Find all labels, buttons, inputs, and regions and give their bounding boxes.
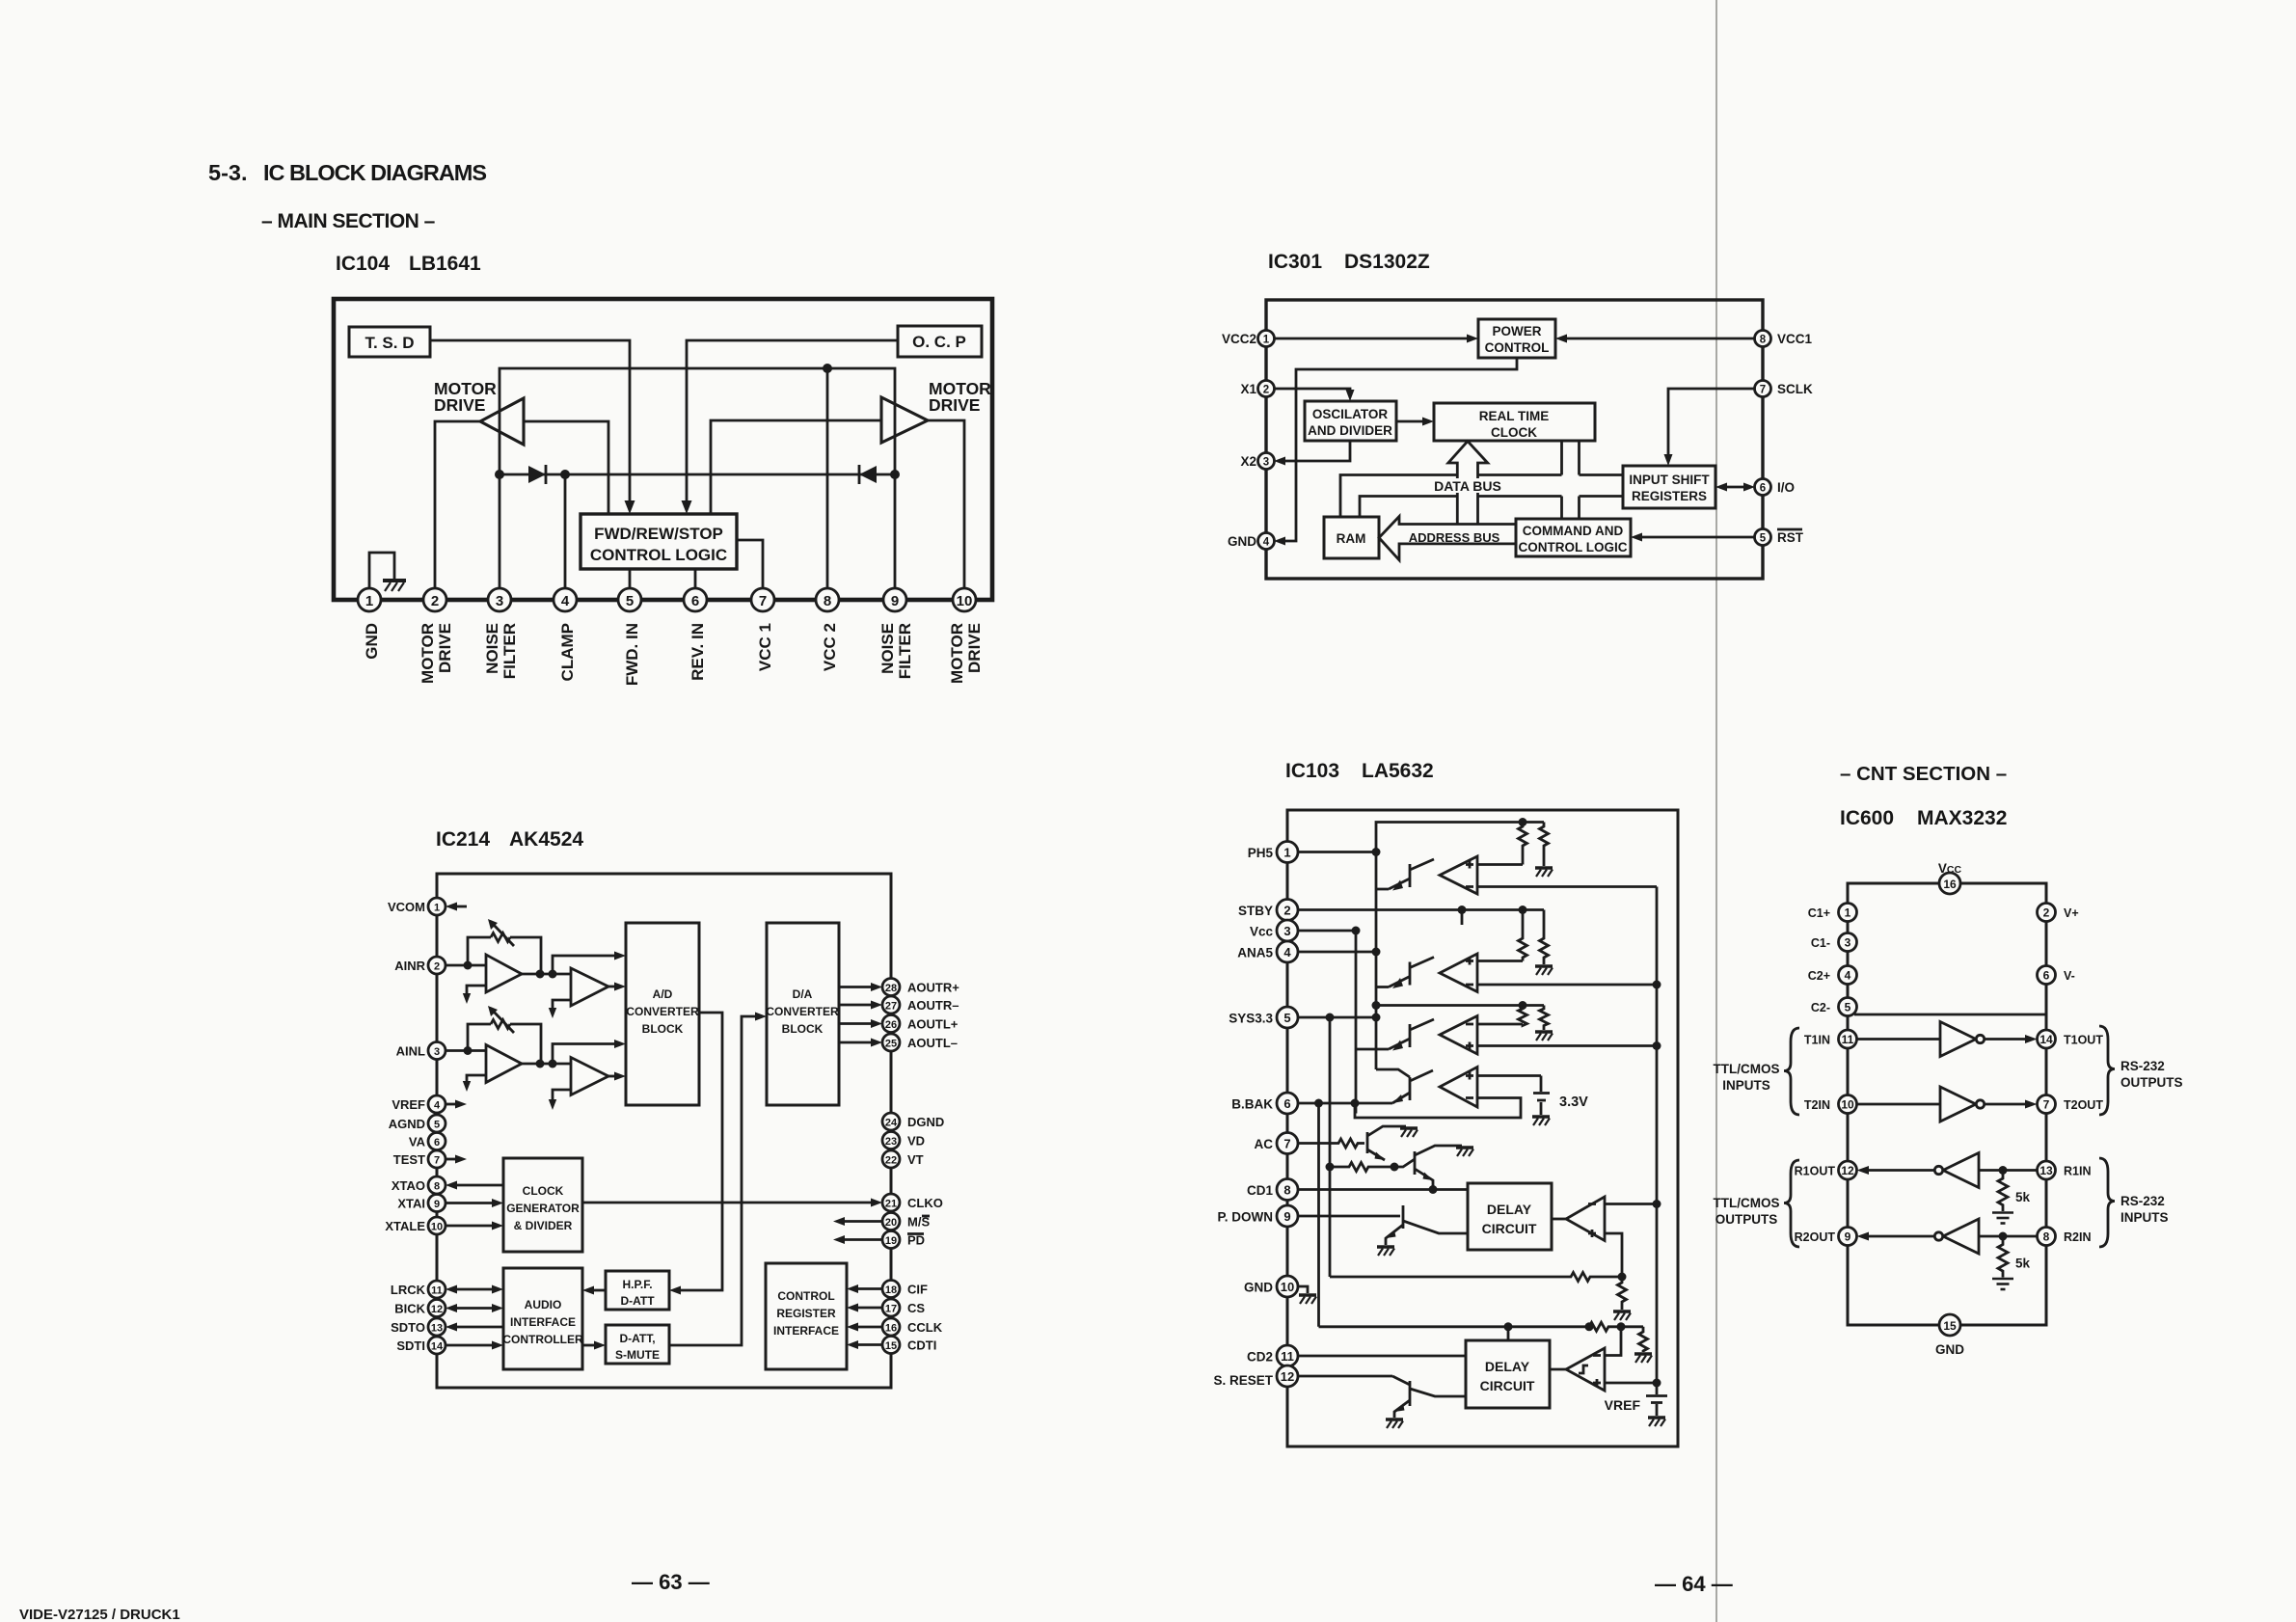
wire U1c plus input long — [1477, 1044, 1657, 1047]
block DELAY CIRCUIT 2 — [1466, 1340, 1550, 1408]
ground Q8 — [1386, 1419, 1403, 1428]
svg-text:6: 6 — [691, 593, 699, 609]
svg-text:26: 26 — [885, 1019, 897, 1031]
wire pin2 AINR — [446, 964, 486, 967]
buffer R2 wire in — [1979, 1235, 2038, 1238]
wire pin12 BICK bidirectional — [453, 1307, 496, 1310]
wire U1b minus input long — [1477, 984, 1657, 987]
junction dot pin9/diode — [890, 470, 900, 479]
svg-text:5-3.: 5-3. — [208, 160, 248, 185]
wire A1 input from control logic — [524, 421, 608, 514]
svg-text:T2OUT: T2OUT — [2064, 1098, 2103, 1112]
data bus left bend into RAM — [1340, 475, 1457, 518]
svg-text:LRCK: LRCK — [391, 1283, 426, 1297]
svg-text:VA: VA — [409, 1135, 426, 1149]
svg-text:OUTPUTS: OUTPUTS — [2120, 1075, 2183, 1090]
svg-text:13: 13 — [431, 1323, 443, 1335]
pin 9 XTAI — [428, 1195, 446, 1212]
pin 13 R1IN — [2038, 1161, 2056, 1179]
amp A1L input buffer — [486, 1045, 522, 1083]
svg-text:TEST: TEST — [393, 1152, 425, 1167]
svg-text:IC BLOCK DIAGRAMS: IC BLOCK DIAGRAMS — [263, 160, 486, 185]
svg-text:DELAY: DELAY — [1485, 1359, 1530, 1374]
svg-text:AOUTL–: AOUTL– — [907, 1036, 958, 1050]
svg-text:1: 1 — [1263, 335, 1270, 346]
comparator U1c — [1440, 1016, 1477, 1055]
svg-text:– CNT SECTION –: – CNT SECTION – — [1840, 763, 2007, 785]
svg-text:CONTROL LOGIC: CONTROL LOGIC — [590, 546, 727, 564]
pin 1 VCC2 — [1258, 331, 1275, 347]
wire audio controller to D-ATT — [582, 1344, 598, 1347]
wire A2L lower input — [553, 1090, 571, 1102]
svg-text:T. S. D: T. S. D — [365, 334, 414, 352]
svg-text:AND DIVIDER: AND DIVIDER — [1308, 423, 1392, 438]
svg-text:4: 4 — [434, 1100, 441, 1112]
svg-text:4: 4 — [1263, 537, 1270, 549]
svg-text:XTAO: XTAO — [392, 1178, 425, 1193]
ground stage1 — [1535, 868, 1553, 877]
ground Q6 collector — [1456, 1148, 1473, 1156]
svg-text:10: 10 — [431, 1222, 443, 1233]
wire pin8 CD1 — [1298, 1188, 1468, 1191]
wire pin7 AC with resistor — [1298, 1139, 1364, 1148]
block CONTROL REGISTER INTERFACE — [766, 1263, 847, 1369]
pin 7 TEST — [428, 1150, 446, 1168]
svg-text:C2+: C2+ — [1808, 969, 1830, 983]
buffer T1 wire out — [1985, 1038, 2029, 1041]
svg-text:11: 11 — [1842, 1033, 1854, 1046]
svg-text:3: 3 — [1845, 936, 1851, 950]
svg-text:TTL/CMOS: TTL/CMOS — [1714, 1062, 1780, 1076]
pin 2 V+ — [2038, 904, 2056, 922]
wire U2 minus input — [1605, 1203, 1657, 1205]
pin 4 C2+ — [1839, 966, 1857, 985]
svg-text:VREF: VREF — [392, 1097, 425, 1112]
svg-text:SCLK: SCLK — [1777, 382, 1813, 396]
wire STBY stub — [1461, 910, 1464, 926]
right bus vertical — [1656, 887, 1659, 1384]
svg-text:INPUTS: INPUTS — [2120, 1210, 2169, 1225]
pin 7 SCLK — [1755, 381, 1771, 397]
pin 16 Vcc — [1939, 873, 1960, 894]
svg-text:DRIVE: DRIVE — [434, 395, 485, 415]
pin 16 CCLK — [882, 1318, 900, 1336]
svg-text:A/D: A/D — [653, 987, 673, 1001]
pin 23 VD — [882, 1132, 900, 1149]
svg-text:FWD/REW/STOP: FWD/REW/STOP — [594, 525, 723, 543]
pin 2 — [423, 588, 446, 611]
wire delay2 to comparator U3 — [1550, 1368, 1566, 1371]
transistor Q3 — [1356, 1019, 1434, 1049]
resistor stage2 b — [1540, 910, 1549, 965]
wire A1R lower input — [467, 986, 486, 996]
IC600 outer boundary — [1848, 883, 2046, 1325]
svg-text:27: 27 — [885, 1001, 897, 1013]
svg-text:X1: X1 — [1240, 382, 1256, 396]
variable resistor feedback R channel — [468, 937, 541, 974]
diode D2 — [859, 466, 877, 483]
svg-text:10: 10 — [1281, 1280, 1294, 1294]
svg-text:ADDRESS BUS: ADDRESS BUS — [1409, 530, 1500, 545]
svg-text:1: 1 — [365, 593, 373, 609]
svg-text:STBY: STBY — [1238, 904, 1273, 918]
ground VREF — [1648, 1418, 1665, 1426]
ground R1 — [1992, 1213, 2013, 1224]
pin 11 CD2 — [1277, 1345, 1298, 1366]
amp A1R input buffer — [486, 955, 522, 992]
ground Q7 — [1377, 1247, 1394, 1256]
block CLOCK GENERATOR & DIVIDER — [503, 1158, 582, 1252]
wire A2R output to A/D — [608, 986, 617, 988]
pin 9 — [883, 588, 906, 611]
pin 21 CLKO — [882, 1194, 900, 1211]
svg-text:12: 12 — [1841, 1164, 1854, 1177]
svg-text:8: 8 — [434, 1181, 440, 1193]
pin 4 VREF — [428, 1095, 446, 1113]
svg-text:R1OUT: R1OUT — [1795, 1165, 1836, 1178]
inner vertical V4 — [1317, 1103, 1320, 1327]
ground stage3 — [1535, 1032, 1553, 1041]
wire pin11 LRCK bidirectional — [453, 1288, 496, 1291]
wire oscilator to pin3 X2 — [1283, 441, 1350, 461]
svg-text:16: 16 — [1943, 878, 1957, 891]
svg-text:4: 4 — [1845, 969, 1851, 983]
svg-text:S-MUTE: S-MUTE — [615, 1348, 660, 1362]
data bus right segment to input shift registers — [1580, 475, 1624, 497]
svg-text:28: 28 — [885, 983, 897, 994]
transistor Q4 — [1392, 1070, 1433, 1103]
wire pin2 to left motor drive output — [435, 421, 480, 589]
IC103 outer block boundary — [1287, 810, 1678, 1446]
svg-text:5: 5 — [1760, 533, 1767, 545]
svg-text:CLOCK: CLOCK — [523, 1184, 564, 1198]
pin 18 CIF — [882, 1281, 900, 1298]
pin 2 STBY — [1277, 900, 1298, 921]
wire O.C.P to control logic — [687, 340, 898, 501]
svg-text:NOISE: NOISE — [878, 623, 897, 674]
svg-text:14: 14 — [431, 1341, 444, 1353]
pin 8 XTAO — [428, 1176, 446, 1194]
svg-text:5k: 5k — [2015, 1257, 2031, 1271]
svg-text:3: 3 — [434, 1046, 440, 1058]
svg-text:10: 10 — [957, 593, 973, 609]
svg-text:5k: 5k — [2015, 1190, 2031, 1204]
pin 9 P.DOWN — [1277, 1205, 1298, 1227]
junction dot VCC2 node — [823, 364, 832, 373]
svg-text:12: 12 — [1281, 1369, 1294, 1384]
wire pin9 XTAI to clock gen — [446, 1202, 495, 1204]
svg-text:& DIVIDER: & DIVIDER — [514, 1219, 573, 1232]
IC301 outer block boundary — [1266, 300, 1763, 579]
pin 1 PH5 — [1277, 842, 1298, 863]
svg-text:GENERATOR: GENERATOR — [506, 1202, 580, 1215]
wire pin9 P.DOWN — [1298, 1215, 1400, 1218]
pin 7 AC — [1277, 1133, 1298, 1154]
buffer T2 wire in — [1857, 1103, 1941, 1106]
svg-text:D-ATT: D-ATT — [620, 1294, 655, 1308]
wire pin2 X1 to oscilator — [1274, 389, 1350, 392]
svg-text:AINL: AINL — [396, 1044, 425, 1059]
op-amp U1 outer block boundary — [334, 299, 992, 600]
svg-text:T2IN: T2IN — [1804, 1098, 1830, 1112]
svg-text:IC214: IC214 — [436, 828, 490, 851]
wire L channel to A/D upper — [553, 1044, 617, 1065]
svg-text:3.3V: 3.3V — [1559, 1095, 1588, 1110]
svg-text:S. RESET: S. RESET — [1213, 1373, 1273, 1388]
svg-text:CONTROL LOGIC: CONTROL LOGIC — [1519, 540, 1628, 554]
svg-text:1: 1 — [434, 903, 440, 914]
svg-text:GND: GND — [1935, 1342, 1964, 1357]
wire pin15 CDTI to control register — [854, 1343, 882, 1346]
wire pin10 GND — [1298, 1286, 1308, 1293]
pin 4 — [554, 588, 577, 611]
wire pin1 PH5 — [1298, 851, 1376, 853]
svg-text:AOUTL+: AOUTL+ — [907, 1017, 959, 1032]
pin 15 CDTI — [882, 1337, 900, 1354]
svg-text:CONVERTER: CONVERTER — [626, 1005, 699, 1018]
svg-text:AC: AC — [1255, 1137, 1274, 1151]
svg-text:T1IN: T1IN — [1804, 1034, 1830, 1047]
svg-text:10: 10 — [1841, 1098, 1854, 1112]
pin 3 C1- — [1839, 933, 1857, 952]
svg-text:– MAIN SECTION –: – MAIN SECTION – — [261, 210, 436, 232]
svg-text:XTAI: XTAI — [397, 1197, 425, 1211]
wire clamp diode row — [500, 473, 895, 476]
capacitor VREF — [1656, 1383, 1659, 1394]
svg-text:VCC2: VCC2 — [1222, 332, 1256, 346]
svg-text:AUDIO: AUDIO — [525, 1298, 562, 1311]
wire pin1 to ground — [369, 553, 394, 589]
transistor Q1 — [1376, 859, 1434, 889]
svg-text:CONVERTER: CONVERTER — [766, 1005, 839, 1018]
wire pin11 CD2 — [1298, 1355, 1466, 1358]
svg-text:3: 3 — [496, 593, 503, 609]
buffer R1 wire out — [1865, 1169, 1934, 1172]
svg-text:DRIVE: DRIVE — [965, 623, 984, 673]
svg-text:VCC1: VCC1 — [1777, 332, 1813, 346]
wire delay1 to comparator U2 — [1552, 1218, 1566, 1221]
battery 3.3V — [1540, 1076, 1543, 1093]
comparator U1d — [1440, 1068, 1477, 1108]
svg-text:INPUT SHIFT: INPUT SHIFT — [1629, 473, 1710, 487]
wire pin14 SDTI input — [446, 1344, 496, 1347]
wire control logic to pin7 VCC1 — [737, 540, 763, 589]
svg-text:LA5632: LA5632 — [1362, 760, 1434, 782]
svg-text:5: 5 — [434, 1120, 440, 1131]
pin 7 T2OUT — [2038, 1095, 2056, 1114]
block RAM — [1324, 517, 1379, 558]
svg-text:15: 15 — [885, 1340, 897, 1352]
wire pin6 B.BAK — [1298, 1102, 1392, 1105]
wire A2 input from control logic — [711, 420, 881, 514]
wire pin4 ANA5 — [1298, 951, 1376, 954]
buffer R2 — [1943, 1219, 1979, 1254]
resistor 5k R1 — [1998, 1171, 2008, 1212]
svg-text:FWD. IN: FWD. IN — [623, 623, 641, 686]
brace RS-232 inputs — [2099, 1158, 2115, 1247]
pin 27 AOUTR- — [882, 996, 900, 1014]
svg-text:MOTOR: MOTOR — [419, 623, 437, 684]
pin 13 SDTO — [428, 1318, 446, 1336]
pin 6 V- — [2038, 966, 2056, 985]
svg-text:2: 2 — [2043, 906, 2050, 920]
svg-text:LB1641: LB1641 — [409, 253, 481, 275]
wire pin4 clamp — [564, 474, 567, 589]
pin 8 R2IN — [2038, 1228, 2056, 1246]
svg-text:VT: VT — [907, 1152, 924, 1167]
page crease line — [1715, 0, 1717, 1622]
svg-text:IC600: IC600 — [1840, 807, 1894, 829]
svg-text:SYS3.3: SYS3.3 — [1229, 1012, 1273, 1026]
svg-text:IC103: IC103 — [1285, 760, 1339, 782]
svg-text:GND: GND — [1244, 1281, 1273, 1295]
svg-text:DELAY: DELAY — [1487, 1202, 1532, 1217]
svg-text:1: 1 — [1283, 846, 1290, 860]
svg-text:12: 12 — [431, 1304, 443, 1315]
wire pin4 VREF arrow — [446, 1103, 457, 1106]
svg-text:V+: V+ — [2064, 906, 2079, 920]
brace TTL/CMOS outputs — [1784, 1160, 1799, 1247]
pin 6 B.BAK — [1277, 1093, 1298, 1114]
svg-text:REGISTERS: REGISTERS — [1632, 489, 1707, 503]
block FWD/REW/STOP CONTROL LOGIC — [581, 514, 737, 569]
wire pin20 M/S input arrow — [841, 1220, 882, 1223]
wire A1R output node — [522, 973, 571, 976]
inner vertical V1 — [1355, 931, 1358, 1114]
wire pin5 RST to command and control logic — [1639, 536, 1755, 539]
transistor Q5 — [1367, 1126, 1406, 1160]
svg-text:AK4524: AK4524 — [509, 828, 583, 851]
buffer T2 wire out — [1985, 1103, 2029, 1106]
svg-text:19: 19 — [885, 1235, 897, 1247]
wire pin16 CCLK to control register — [854, 1326, 882, 1329]
wire H.P.F. to audio controller — [590, 1289, 606, 1292]
resistor stage1 a — [1519, 823, 1527, 865]
wire pin6 I/O to input shift registers — [1724, 486, 1747, 489]
transistor Q6 — [1415, 1146, 1462, 1190]
svg-text:ANA5: ANA5 — [1237, 946, 1273, 960]
wire dot to U3 minus — [1605, 1327, 1621, 1356]
wire clock gen to pin21 CLKO — [582, 1202, 874, 1204]
wire pin19 PD input arrow — [841, 1238, 882, 1241]
pin 2 X1 — [1258, 381, 1275, 397]
svg-text:REAL TIME: REAL TIME — [1479, 409, 1550, 423]
inner vertical V3 — [1329, 1017, 1332, 1277]
svg-text:9: 9 — [434, 1199, 440, 1210]
svg-text:DRIVE: DRIVE — [929, 395, 980, 415]
svg-text:9: 9 — [1283, 1209, 1290, 1224]
svg-text:C1-: C1- — [1811, 936, 1830, 950]
svg-text:V-: V- — [2064, 969, 2075, 983]
buffer T1 wire in — [1857, 1038, 1941, 1041]
svg-text:MOTOR: MOTOR — [948, 623, 966, 684]
svg-text:SDTI: SDTI — [396, 1338, 425, 1353]
svg-text:CLOCK: CLOCK — [1491, 425, 1537, 440]
svg-text:FILTER: FILTER — [500, 623, 519, 679]
ground row resistor — [1634, 1354, 1652, 1363]
wire into delay2 top — [1507, 1327, 1510, 1340]
pin 3 AINL — [428, 1042, 446, 1060]
svg-text:CLKO: CLKO — [907, 1196, 943, 1210]
comparator U3 schmitt — [1566, 1348, 1605, 1391]
pin 7 — [751, 588, 774, 611]
buffer R1 — [1943, 1153, 1979, 1188]
pin 12 R1OUT — [1839, 1161, 1857, 1179]
resistor stage1 b — [1540, 823, 1549, 867]
svg-text:8: 8 — [2043, 1230, 2050, 1244]
svg-text:22: 22 — [885, 1155, 897, 1167]
pin 5 C2- — [1839, 998, 1857, 1016]
svg-text:7: 7 — [434, 1155, 440, 1167]
svg-text:GND: GND — [363, 623, 381, 660]
svg-text:VIDE-V27125 / DRUCK1: VIDE-V27125 / DRUCK1 — [19, 1607, 180, 1622]
wire pin5 SYS3.3 — [1298, 1016, 1376, 1019]
data bus arrow into real time clock — [1448, 442, 1488, 525]
svg-text:6: 6 — [1283, 1096, 1290, 1111]
svg-text:MAX3232: MAX3232 — [1917, 807, 2007, 829]
pin 3 Vcc — [1277, 920, 1298, 941]
svg-text:VD: VD — [907, 1134, 925, 1149]
pin 28 AOUTR+ — [882, 979, 900, 996]
wire control logic to pin5 — [629, 569, 632, 589]
wire pin18 CIF to control register — [854, 1287, 882, 1290]
brace RS-232 outputs — [2099, 1026, 2115, 1115]
pin 6 — [684, 588, 707, 611]
svg-text:INPUTS: INPUTS — [1722, 1078, 1770, 1093]
svg-text:SDTO: SDTO — [391, 1320, 425, 1335]
wire pin1 VCOM arrow — [455, 906, 467, 908]
pin 5 AGND — [428, 1115, 446, 1132]
svg-text:COMMAND AND: COMMAND AND — [1523, 524, 1624, 538]
amp A2R — [571, 968, 608, 1006]
svg-text:17: 17 — [885, 1304, 897, 1315]
svg-text:VCC 2: VCC 2 — [821, 623, 839, 671]
buffer T2 — [1940, 1087, 1976, 1122]
svg-text:2: 2 — [434, 961, 440, 973]
svg-text:21: 21 — [885, 1199, 897, 1210]
wire A1L lower input — [467, 1075, 486, 1084]
comparator U2 — [1566, 1197, 1605, 1241]
svg-text:CD1: CD1 — [1247, 1183, 1273, 1198]
wire D/A to pin26 — [839, 1022, 874, 1025]
pin 10 — [953, 588, 976, 611]
svg-text:R2IN: R2IN — [2064, 1230, 2091, 1244]
pin 20 M/S — [882, 1213, 900, 1230]
block D-ATT S-MUTE — [606, 1325, 669, 1364]
comparator U1a — [1440, 856, 1477, 894]
wire pin8 VCC2 — [826, 368, 829, 589]
svg-text:9: 9 — [891, 593, 899, 609]
pin 1 — [358, 588, 381, 611]
block D/A CONVERTER BLOCK — [767, 923, 839, 1105]
svg-text:CONTROL: CONTROL — [777, 1289, 834, 1303]
svg-text:P. DOWN: P. DOWN — [1217, 1210, 1273, 1225]
svg-text:R1IN: R1IN — [2064, 1165, 2091, 1178]
svg-text:CIRCUIT: CIRCUIT — [1482, 1221, 1537, 1236]
IC214 outer block boundary — [437, 874, 891, 1388]
svg-text:2: 2 — [1263, 385, 1269, 396]
svg-text:CD2: CD2 — [1247, 1350, 1273, 1365]
resistor 5k R2 — [1998, 1236, 2008, 1278]
diode D1 — [528, 466, 546, 483]
wire pin17 CS to control register — [854, 1307, 882, 1310]
pin 3 — [488, 588, 511, 611]
svg-text:8: 8 — [1283, 1183, 1290, 1198]
svg-text:NOISE: NOISE — [483, 623, 501, 674]
svg-text:VREF: VREF — [1605, 1397, 1641, 1413]
svg-text:23: 23 — [885, 1136, 897, 1148]
amp A2L — [571, 1058, 608, 1095]
